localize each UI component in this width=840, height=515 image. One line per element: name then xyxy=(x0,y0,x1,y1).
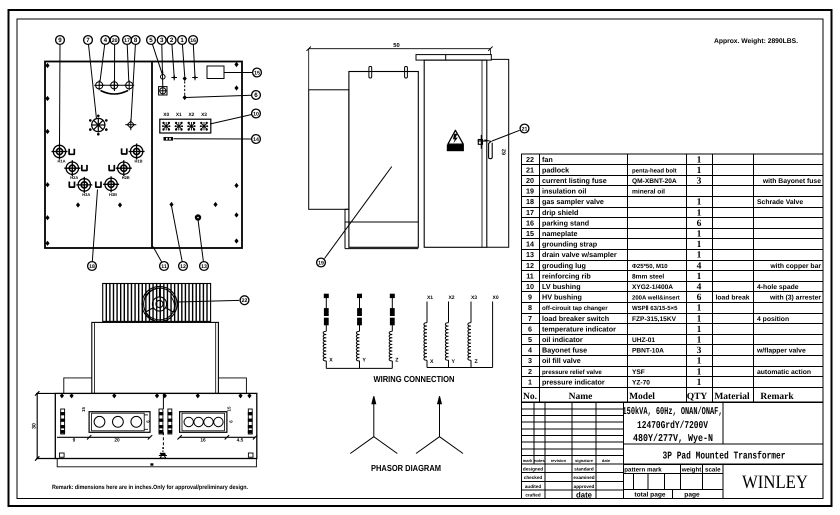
svg-text:grounding strap: grounding strap xyxy=(542,240,598,249)
door handle item 21 xyxy=(478,135,493,159)
transformer spec text xyxy=(623,406,786,463)
svg-text:15: 15 xyxy=(526,229,534,238)
svg-text:4-hole spade: 4-hole spade xyxy=(757,284,799,291)
svg-text:X1: X1 xyxy=(427,295,433,301)
callout 21 xyxy=(492,130,520,141)
callout 1 xyxy=(178,36,187,45)
callout 15 xyxy=(253,68,262,77)
svg-text:4: 4 xyxy=(697,283,702,293)
svg-text:nameplate: nameplate xyxy=(542,229,578,238)
title block grid xyxy=(522,402,824,498)
ground pad symbol xyxy=(159,447,167,458)
svg-text:150kVA, 60Hz, ONAN/ONAF,: 150kVA, 60Hz, ONAN/ONAF, xyxy=(623,406,723,418)
svg-text:8: 8 xyxy=(528,303,532,312)
concrete pad xyxy=(57,459,256,467)
LV terminal labels X0 X1 X2 X3 xyxy=(163,112,207,118)
svg-text:18: 18 xyxy=(89,264,95,270)
svg-text:signature: signature xyxy=(575,458,594,463)
callout leader lines (right side) xyxy=(174,73,253,140)
svg-text:4: 4 xyxy=(697,261,702,271)
wire xyxy=(325,325,327,331)
svg-text:Material: Material xyxy=(714,392,750,402)
lifting lugs item 4/17 xyxy=(94,80,134,94)
svg-text:1: 1 xyxy=(697,155,702,165)
parts table header row xyxy=(523,392,794,402)
svg-text:examined: examined xyxy=(573,475,594,480)
cabinet front xyxy=(55,393,256,458)
svg-text:current listing fuse: current listing fuse xyxy=(542,176,607,185)
svg-text:1: 1 xyxy=(697,314,702,324)
base skid xyxy=(345,209,418,248)
wire to neutral bus xyxy=(325,361,327,369)
svg-text:WSPⅡ 63/15-5×5: WSPⅡ 63/15-5×5 xyxy=(632,305,678,312)
cabinet back edge xyxy=(487,59,509,247)
svg-text:200A well&insert: 200A well&insert xyxy=(632,295,680,302)
svg-text:load breaker switch: load breaker switch xyxy=(542,314,609,323)
svg-text:50: 50 xyxy=(393,42,399,49)
svg-text:oil fill valve: oil fill valve xyxy=(542,356,581,365)
HV winding coil xyxy=(323,331,326,361)
svg-text:17: 17 xyxy=(526,208,534,217)
svg-text:notes: notes xyxy=(534,458,545,463)
svg-text:PHASOR DIAGRAM: PHASOR DIAGRAM xyxy=(371,463,441,473)
panel divider wall xyxy=(151,62,153,249)
svg-text:Y: Y xyxy=(452,359,456,365)
wye phasor xyxy=(350,396,397,453)
svg-text:X: X xyxy=(329,358,333,364)
tank side xyxy=(349,72,418,248)
svg-text:22: 22 xyxy=(242,298,248,304)
center door split line xyxy=(162,393,164,449)
panel outline xyxy=(45,62,242,249)
callout leader lines (bottom) xyxy=(92,190,203,263)
svg-text:1: 1 xyxy=(697,378,702,388)
parking stand clamp (item 18) xyxy=(69,149,74,155)
callout 19 xyxy=(325,167,392,259)
title block revision labels xyxy=(523,458,611,500)
HV phase X terminal xyxy=(324,294,328,297)
svg-text:fan: fan xyxy=(542,155,553,164)
parking stand clamp (item 18) xyxy=(82,165,87,171)
svg-text:H3B: H3B xyxy=(109,192,117,197)
svg-text:18: 18 xyxy=(526,197,534,206)
svg-text:1: 1 xyxy=(697,272,702,282)
drain valve item 13 xyxy=(195,214,201,220)
svg-text:1: 1 xyxy=(528,377,532,386)
bolt item 16 xyxy=(192,75,198,81)
svg-text:1: 1 xyxy=(697,304,702,314)
dimension lines under windows xyxy=(57,435,257,439)
svg-text:14: 14 xyxy=(253,137,259,143)
parts list table grid xyxy=(522,154,824,402)
svg-text:5: 5 xyxy=(149,37,153,44)
svg-text:weight: weight xyxy=(681,467,702,474)
svg-text:20: 20 xyxy=(112,38,118,44)
svg-text:1: 1 xyxy=(180,37,184,44)
grounding pad item 14 xyxy=(164,137,174,141)
svg-text:PBNT-10A: PBNT-10A xyxy=(632,348,664,355)
panel edge bolts right xyxy=(234,62,238,244)
svg-text:H1B: H1B xyxy=(134,159,142,164)
svg-text:6: 6 xyxy=(528,324,532,333)
cabinet door front xyxy=(424,60,487,247)
svg-text:21: 21 xyxy=(522,126,528,132)
svg-text:YZ-70: YZ-70 xyxy=(632,379,650,386)
callout 10 xyxy=(252,109,261,118)
door hinge strips xyxy=(61,409,253,434)
nameplate item 15 xyxy=(207,66,224,79)
callout 12 xyxy=(179,262,188,271)
svg-text:10: 10 xyxy=(253,111,259,117)
svg-text:13: 13 xyxy=(526,250,534,259)
svg-text:H1A: H1A xyxy=(57,159,65,164)
HV winding coil xyxy=(389,331,392,361)
svg-text:pressure relief valve: pressure relief valve xyxy=(542,369,602,376)
boxed gauge item 3 xyxy=(159,87,167,95)
parking stand clamp (item 18) xyxy=(109,165,114,171)
radiator fins xyxy=(103,284,211,322)
svg-text:insulation oil: insulation oil xyxy=(542,187,586,196)
wire xyxy=(391,298,393,309)
svg-text:2: 2 xyxy=(170,37,174,44)
svg-text:grouding lug: grouding lug xyxy=(542,261,586,270)
LV terminal X3 xyxy=(470,302,472,323)
svg-text:gas sampler valve: gas sampler valve xyxy=(542,197,604,206)
svg-text:4.5: 4.5 xyxy=(237,438,244,444)
callout 11 xyxy=(160,262,169,271)
svg-text:16: 16 xyxy=(200,438,206,444)
LV winding coil xyxy=(468,323,471,361)
svg-text:12: 12 xyxy=(526,261,534,270)
svg-text:3: 3 xyxy=(160,37,164,44)
wire xyxy=(391,325,393,331)
svg-text:8mm steel: 8mm steel xyxy=(632,273,664,280)
svg-text:Y: Y xyxy=(362,358,366,364)
callout 17 xyxy=(123,36,132,45)
svg-text:9: 9 xyxy=(73,438,76,444)
svg-text:date: date xyxy=(576,491,593,500)
svg-text:12470GrdY/7200V: 12470GrdY/7200V xyxy=(637,420,709,432)
svg-text:X2: X2 xyxy=(448,295,454,301)
svg-text:UHZ-01: UHZ-01 xyxy=(632,337,655,344)
cabinet shoulders xyxy=(64,378,92,394)
svg-text:6: 6 xyxy=(697,219,702,229)
callout 3 xyxy=(157,36,166,45)
svg-text:X2: X2 xyxy=(188,112,194,118)
svg-text:1: 1 xyxy=(697,230,702,240)
svg-text:480Y/277V, Wye-N: 480Y/277V, Wye-N xyxy=(633,433,713,445)
svg-text:QTY: QTY xyxy=(687,392,708,402)
svg-text:load break: load break xyxy=(716,295,750,302)
high voltage warning sign xyxy=(447,130,464,151)
svg-text:mark: mark xyxy=(523,458,533,463)
LV winding coil xyxy=(445,323,448,361)
svg-text:10: 10 xyxy=(526,282,534,291)
svg-text:8: 8 xyxy=(134,37,138,44)
callout 6 xyxy=(252,91,261,100)
svg-text:H2B: H2B xyxy=(122,175,130,180)
tap changer knob item 8 xyxy=(125,119,136,130)
pattern mark / weight / scale / pages labels xyxy=(624,467,721,499)
HV phase Y terminal xyxy=(358,294,362,297)
svg-text:audited: audited xyxy=(525,484,542,489)
LV terminal X0 xyxy=(492,302,494,368)
svg-text:WINLEY: WINLEY xyxy=(742,472,808,493)
callout 16 xyxy=(189,36,198,45)
svg-text:drain valve w/sampler: drain valve w/sampler xyxy=(542,250,617,259)
svg-text:with copper bar: with copper bar xyxy=(769,263,821,270)
svg-text:with (3) arrester: with (3) arrester xyxy=(769,295,821,302)
svg-text:Remark: dimensions here are in: Remark: dimensions here are in inches.On… xyxy=(52,484,248,491)
svg-text:19: 19 xyxy=(526,187,534,196)
svg-text:H2A: H2A xyxy=(70,175,78,180)
svg-text:15: 15 xyxy=(81,407,86,412)
base center mark xyxy=(150,463,153,465)
svg-text:XYG2-1/400A: XYG2-1/400A xyxy=(632,284,673,291)
svg-text:Φ25*50, M10: Φ25*50, M10 xyxy=(632,263,668,270)
svg-text:13: 13 xyxy=(201,264,207,270)
panel edge bolts left xyxy=(45,63,49,246)
svg-text:reinforcing rib: reinforcing rib xyxy=(542,271,591,280)
svg-text:with Bayonet fuse: with Bayonet fuse xyxy=(762,178,821,185)
svg-text:1: 1 xyxy=(697,166,702,176)
svg-text:17: 17 xyxy=(124,38,130,44)
parking stand clamp (item 18) xyxy=(96,182,101,188)
floor bolts right compartment item 12 xyxy=(169,202,217,207)
svg-text:3: 3 xyxy=(697,346,702,356)
svg-text:penta-head bolt: penta-head bolt xyxy=(632,167,677,174)
wire to neutral bus xyxy=(391,361,393,369)
svg-text:21: 21 xyxy=(526,165,534,174)
svg-text:1: 1 xyxy=(697,198,702,208)
svg-text:designed: designed xyxy=(523,467,543,472)
svg-text:off-cirouit tap changer: off-cirouit tap changer xyxy=(542,305,608,312)
HV bushing H2B (item 9) xyxy=(116,160,132,176)
parking stand clamp (item 18) xyxy=(122,148,127,154)
svg-text:1: 1 xyxy=(697,240,702,250)
dimension 50 line xyxy=(309,48,491,50)
tank front xyxy=(55,322,256,466)
radiator side profile xyxy=(309,90,349,210)
svg-text:Remark: Remark xyxy=(760,392,794,402)
svg-text:crafted: crafted xyxy=(525,493,541,498)
parking stand clamp (item 18) xyxy=(69,182,74,188)
cabinet top bolts xyxy=(60,393,252,398)
svg-text:4: 4 xyxy=(528,346,532,355)
svg-text:1: 1 xyxy=(697,208,702,218)
svg-text:Approx. Weight: 2890LBS.: Approx. Weight: 2890LBS. xyxy=(714,38,798,45)
svg-text:9: 9 xyxy=(528,293,532,302)
svg-text:6: 6 xyxy=(254,92,258,99)
svg-text:2: 2 xyxy=(528,367,532,376)
wire to neutral bus xyxy=(359,361,361,369)
tank lid bolts xyxy=(369,67,372,79)
svg-text:No.: No. xyxy=(523,392,537,402)
svg-text:5: 5 xyxy=(528,335,532,344)
svg-text:date: date xyxy=(602,458,611,463)
svg-text:Bayonet fuse: Bayonet fuse xyxy=(542,346,587,355)
wire xyxy=(359,298,361,309)
callout 14 xyxy=(252,135,261,144)
callout 5 xyxy=(147,36,156,45)
svg-text:revision: revision xyxy=(551,458,567,463)
svg-text:3P Pad Mounted Transformer: 3P Pad Mounted Transformer xyxy=(663,451,786,463)
callout 20 xyxy=(110,36,119,45)
callout 4 xyxy=(101,36,110,45)
wire xyxy=(325,298,327,309)
svg-text:30: 30 xyxy=(31,423,37,429)
svg-text:1: 1 xyxy=(697,357,702,367)
LV terminal X1 xyxy=(426,302,428,323)
svg-text:19: 19 xyxy=(318,260,324,266)
svg-text:Model: Model xyxy=(629,392,655,402)
svg-text:3: 3 xyxy=(697,177,702,187)
svg-text:pattern mark: pattern mark xyxy=(624,467,662,474)
svg-text:oil indicator: oil indicator xyxy=(542,335,583,344)
callout 8 xyxy=(131,36,140,45)
svg-text:automatic action: automatic action xyxy=(757,369,811,376)
corner squares xyxy=(60,453,65,457)
dipstick item 1/6 (dashed with diamond ends) xyxy=(183,76,187,100)
svg-text:4: 4 xyxy=(104,37,108,44)
callout 7 xyxy=(84,36,93,45)
bolt item 2 xyxy=(171,75,177,81)
svg-text:1: 1 xyxy=(697,325,702,335)
svg-text:temperature indicator: temperature indicator xyxy=(542,324,616,333)
svg-text:3: 3 xyxy=(528,356,532,365)
svg-text:QM-XBNT-20A: QM-XBNT-20A xyxy=(632,178,677,185)
svg-text:w/flapper valve: w/flapper valve xyxy=(756,348,806,355)
svg-text:20: 20 xyxy=(526,176,534,185)
svg-text:HV bushing: HV bushing xyxy=(542,293,582,302)
LV winding coil xyxy=(424,323,427,361)
svg-text:16: 16 xyxy=(526,218,534,227)
callout 2 xyxy=(167,36,176,45)
LV bushing box item 10 xyxy=(160,119,211,133)
svg-text:62: 62 xyxy=(502,149,508,155)
svg-text:FZP-315,15KV: FZP-315,15KV xyxy=(632,316,677,323)
HV neutral bus xyxy=(326,367,392,369)
svg-text:padlock: padlock xyxy=(542,165,569,174)
LV neutral bus xyxy=(427,367,493,369)
svg-text:page: page xyxy=(684,492,700,499)
svg-text:X: X xyxy=(430,359,434,365)
svg-text:YSF: YSF xyxy=(632,369,645,376)
svg-text:mineral oil: mineral oil xyxy=(632,189,665,196)
svg-text:11: 11 xyxy=(161,264,167,270)
svg-text:X1: X1 xyxy=(176,112,182,118)
HV bushing H3B (item 9) xyxy=(103,176,119,192)
HV bushing H1B (item 9) xyxy=(129,144,145,160)
svg-text:checked: checked xyxy=(524,475,543,480)
LV window xyxy=(180,412,227,433)
svg-text:7: 7 xyxy=(528,314,532,323)
callout 22 xyxy=(178,300,240,302)
svg-text:15: 15 xyxy=(227,406,232,411)
svg-text:4 position: 4 position xyxy=(757,316,789,323)
floor bolts left compartment xyxy=(76,202,122,207)
svg-text:X0: X0 xyxy=(493,295,499,301)
svg-text:scale: scale xyxy=(705,467,721,474)
svg-text:6: 6 xyxy=(697,293,702,303)
svg-text:drip shield: drip shield xyxy=(542,208,578,217)
wire xyxy=(359,325,361,331)
HV bushing H3A (item 9) xyxy=(76,177,92,193)
svg-text:X3: X3 xyxy=(471,295,477,301)
svg-text:1: 1 xyxy=(697,367,702,377)
wye phasor xyxy=(416,396,463,453)
HV bushing H1A (item 9) xyxy=(52,144,68,160)
svg-text:11: 11 xyxy=(526,271,534,280)
svg-text:15: 15 xyxy=(254,70,260,76)
svg-text:total page: total page xyxy=(634,492,665,499)
svg-text:Name: Name xyxy=(569,392,593,402)
bayonet fuse xyxy=(324,309,328,316)
svg-text:12: 12 xyxy=(180,264,186,270)
svg-text:H3A: H3A xyxy=(82,192,90,197)
svg-text:parking stand: parking stand xyxy=(542,218,589,227)
svg-text:7: 7 xyxy=(86,37,90,44)
dimension 30 vertical xyxy=(35,391,55,461)
HV bushing H2A (item 9) xyxy=(64,160,80,176)
LV terminal X2 xyxy=(448,302,450,323)
oil indicator item 5 xyxy=(161,72,166,80)
parts list table text xyxy=(526,155,821,388)
bayonet fuse xyxy=(358,309,362,316)
svg-text:pressure indicator: pressure indicator xyxy=(542,377,605,386)
svg-text:Schrade Valve: Schrade Valve xyxy=(757,199,803,206)
cabinet lid xyxy=(416,55,491,61)
svg-text:X3: X3 xyxy=(201,112,207,118)
svg-text:22: 22 xyxy=(526,155,534,164)
svg-text:approved: approved xyxy=(574,484,595,489)
HV winding coil xyxy=(356,331,359,361)
svg-text:16: 16 xyxy=(190,38,196,44)
HV window xyxy=(89,412,150,433)
callout 18 xyxy=(88,262,97,271)
callout 13 xyxy=(200,262,209,271)
bayonet fuse xyxy=(390,309,394,316)
cooling fan item 22 xyxy=(142,286,177,321)
svg-text:X0: X0 xyxy=(163,112,169,118)
callout 9 xyxy=(56,36,65,45)
svg-text:9: 9 xyxy=(58,37,62,44)
HV phase Z terminal xyxy=(390,294,394,297)
svg-text:standard: standard xyxy=(574,467,594,472)
svg-text:1: 1 xyxy=(697,336,702,346)
load break switch handle item 7 xyxy=(89,115,108,136)
svg-text:20: 20 xyxy=(114,438,120,444)
svg-text:14: 14 xyxy=(526,240,534,249)
svg-text:1: 1 xyxy=(697,251,702,261)
svg-text:LV bushing: LV bushing xyxy=(542,282,581,291)
svg-text:WIRING CONNECTION: WIRING CONNECTION xyxy=(374,374,455,384)
callout leader lines (top row) xyxy=(60,44,196,146)
